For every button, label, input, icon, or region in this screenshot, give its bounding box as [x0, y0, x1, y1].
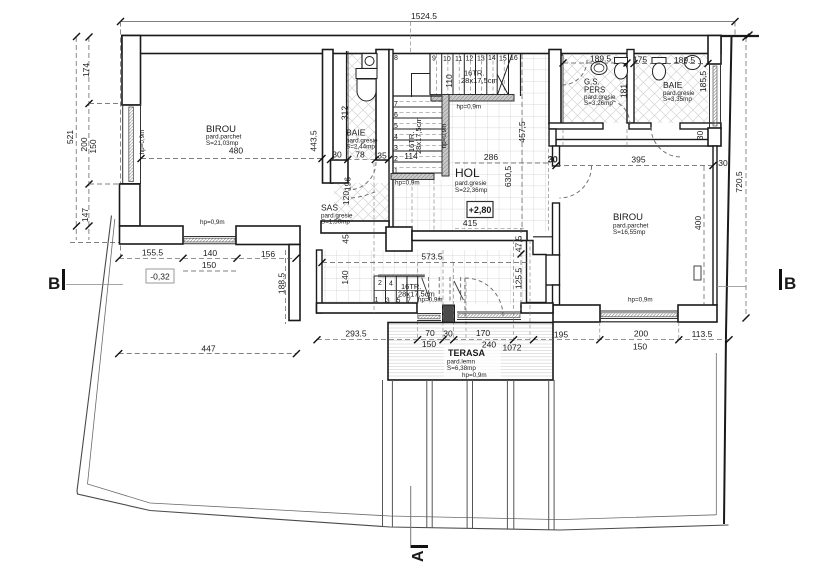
- svg-text:S=16,55mp: S=16,55mp: [613, 229, 646, 236]
- svg-text:312: 312: [340, 106, 350, 120]
- svg-text:hp=0,9m: hp=0,9m: [462, 372, 487, 379]
- svg-text:15: 15: [499, 56, 507, 63]
- staircase upper flight: [412, 54, 521, 97]
- dimension 181: [619, 84, 629, 98]
- svg-text:B: B: [784, 274, 796, 293]
- wall baie1 left lines: [347, 51, 349, 160]
- label hp left window: [139, 130, 146, 155]
- svg-text:2: 2: [378, 280, 382, 287]
- wall birou2 left segments: [540, 129, 560, 305]
- room label sas: [321, 177, 353, 226]
- dimension 447: [115, 344, 300, 358]
- svg-text:110: 110: [444, 74, 454, 88]
- svg-text:400: 400: [693, 216, 703, 230]
- wall terasa right top: [521, 303, 553, 313]
- svg-text:hp=0,9m: hp=0,9m: [418, 297, 443, 304]
- svg-text:395: 395: [631, 155, 645, 165]
- svg-text:188.5: 188.5: [277, 273, 287, 295]
- svg-text:hp=0,9m: hp=0,9m: [457, 104, 482, 111]
- svg-text:30: 30: [718, 158, 728, 168]
- door arc sas-hol: [351, 191, 377, 198]
- dimension bottom row: [314, 328, 733, 353]
- dimension 45 140 chain: [340, 234, 351, 285]
- window birou1 bottom: [183, 237, 236, 244]
- svg-text:189.5: 189.5: [590, 54, 612, 64]
- svg-text:30: 30: [332, 150, 342, 160]
- svg-text:443.5: 443.5: [309, 130, 319, 152]
- section marker B left: [48, 269, 123, 293]
- parapet hatch lower: [391, 95, 449, 180]
- wall vertical below birou1: [289, 245, 300, 321]
- fixtures gs: sink: [591, 62, 607, 75]
- svg-text:189.5: 189.5: [674, 55, 696, 65]
- svg-text:pard.gresie: pard.gresie: [455, 180, 487, 187]
- svg-text:S=6,38mp: S=6,38mp: [447, 365, 476, 372]
- wall baie1 right / shaft: [376, 50, 389, 161]
- svg-text:78: 78: [355, 150, 365, 160]
- svg-text:140: 140: [203, 248, 217, 258]
- svg-text:9: 9: [432, 56, 436, 63]
- wall birou1 bottom left segment: [120, 226, 184, 244]
- staircase lower flight: [393, 96, 442, 173]
- svg-text:B: B: [48, 274, 60, 293]
- entry steps: [374, 275, 463, 304]
- svg-text:hp=0,9m: hp=0,9m: [200, 219, 225, 226]
- wall junction block: [386, 227, 412, 251]
- svg-text:12: 12: [466, 56, 474, 63]
- svg-text:4: 4: [394, 134, 398, 141]
- svg-text:415: 415: [463, 218, 477, 228]
- svg-text:45: 45: [341, 234, 351, 244]
- svg-text:BIROU: BIROU: [613, 212, 643, 223]
- dimension 480: [138, 146, 326, 163]
- svg-text:114: 114: [404, 151, 418, 161]
- svg-text:5: 5: [397, 298, 401, 305]
- dimension 30 hol: [548, 155, 558, 165]
- svg-text:480: 480: [229, 146, 243, 156]
- room label baie1: [340, 106, 379, 151]
- stair labels: [395, 69, 498, 187]
- dimension 415: [463, 218, 477, 228]
- svg-text:195: 195: [554, 330, 568, 340]
- wall bathrooms bottom: [549, 123, 721, 129]
- svg-text:150: 150: [422, 339, 436, 349]
- pillar entry: [443, 305, 455, 323]
- svg-text:HOL: HOL: [455, 166, 480, 180]
- wall left upper: [122, 36, 141, 106]
- terasa: [388, 323, 553, 381]
- dimension 400: [693, 166, 704, 305]
- wall left lower block: [120, 184, 141, 226]
- svg-text:175: 175: [633, 55, 647, 65]
- level box +2,80: [467, 202, 493, 218]
- wall lower block right jogs: [527, 237, 553, 303]
- svg-text:457,5: 457,5: [517, 121, 527, 143]
- floor tile fields: [322, 51, 708, 304]
- svg-text:S=22,36mp: S=22,36mp: [455, 187, 488, 194]
- door arc birou2: [560, 166, 592, 198]
- svg-text:630,5: 630,5: [503, 166, 513, 188]
- fixtures baie2: wc: [652, 58, 666, 81]
- wall birou2 bottom with window: [553, 305, 717, 322]
- window lower block 1: [417, 314, 441, 321]
- svg-text:521: 521: [65, 130, 75, 144]
- svg-text:140: 140: [340, 270, 350, 284]
- site boundary top: [121, 35, 759, 37]
- svg-text:S=1,50mp: S=1,50mp: [321, 219, 350, 226]
- svg-text:174: 174: [81, 63, 91, 77]
- svg-text:13: 13: [477, 56, 485, 63]
- label hp birou1 bottom: [200, 219, 225, 226]
- svg-text:TERASA: TERASA: [448, 348, 486, 358]
- svg-text:3: 3: [394, 145, 398, 152]
- wall baie1 bottom: [331, 160, 349, 183]
- svg-text:11: 11: [455, 56, 462, 63]
- dimension 573.5: [319, 252, 528, 267]
- dimension 30 (baie2 below): [695, 131, 705, 141]
- svg-text:S=3,26mp: S=3,26mp: [584, 100, 613, 107]
- svg-text:2: 2: [394, 156, 398, 163]
- svg-text:1: 1: [394, 168, 398, 175]
- room label birou2: [613, 212, 649, 236]
- svg-text:10: 10: [443, 56, 451, 63]
- door arc gs bottom: [605, 100, 630, 125]
- svg-text:293.5: 293.5: [345, 329, 367, 339]
- svg-text:28x17,5cm: 28x17,5cm: [414, 117, 423, 154]
- svg-text:147: 147: [80, 208, 90, 222]
- dimension 286: [455, 152, 549, 163]
- wall birou1 bottom right segment: [236, 226, 300, 245]
- door arc baie1: [348, 162, 376, 190]
- svg-text:447: 447: [201, 344, 215, 354]
- svg-text:7: 7: [407, 298, 411, 305]
- svg-text:S=2,44mp: S=2,44mp: [346, 144, 375, 151]
- svg-text:6: 6: [394, 112, 398, 119]
- svg-text:BAIE: BAIE: [663, 80, 683, 90]
- svg-text:30: 30: [695, 131, 705, 141]
- svg-text:150: 150: [202, 260, 216, 270]
- wall top: [122, 36, 721, 54]
- wall right bathrooms / window: [708, 36, 721, 147]
- dimension 185,5: [698, 71, 708, 93]
- svg-text:70: 70: [425, 328, 435, 338]
- extension dashed lines: [348, 22, 679, 340]
- svg-text:3: 3: [386, 298, 390, 305]
- wall lower block left: [317, 250, 323, 313]
- dimension 395 row: [548, 154, 728, 169]
- svg-text:hp=0,9m: hp=0,9m: [139, 130, 146, 155]
- svg-text:47,5: 47,5: [514, 235, 524, 252]
- svg-text:720,5: 720,5: [734, 171, 744, 193]
- svg-text:170: 170: [476, 328, 490, 338]
- svg-text:5: 5: [394, 123, 398, 130]
- wall sas bottom: [321, 221, 389, 233]
- terrace steps below: [383, 380, 555, 530]
- door arc gs left: [562, 60, 587, 85]
- svg-text:155.5: 155.5: [142, 248, 164, 258]
- wall birou2 top: [556, 140, 713, 147]
- svg-text:200: 200: [634, 329, 648, 339]
- dimension 189.5 175 189.5: [560, 54, 712, 68]
- svg-text:125.5: 125.5: [514, 268, 524, 290]
- svg-text:SAS: SAS: [321, 203, 338, 213]
- dimension 188.5: [277, 250, 287, 324]
- svg-text:1072: 1072: [503, 343, 522, 353]
- dimension right chain 720,5: [734, 32, 753, 322]
- svg-text:120: 120: [341, 191, 351, 205]
- svg-text:113.5: 113.5: [692, 329, 713, 339]
- svg-text:156: 156: [261, 249, 275, 259]
- svg-text:8: 8: [394, 55, 398, 62]
- svg-text:150: 150: [633, 342, 647, 352]
- label hp birou2: [628, 297, 653, 304]
- window lower block 2: [457, 312, 521, 320]
- site boundary right: [724, 36, 732, 524]
- room label baie2: [663, 80, 695, 103]
- fixtures baie1: sink: [356, 54, 377, 79]
- svg-text:1524.5: 1524.5: [411, 11, 437, 21]
- wall birou2 right: [713, 146, 717, 305]
- svg-text:35: 35: [377, 151, 387, 161]
- fixtures gs: wc: [615, 58, 628, 80]
- dimension top 1524.5: [117, 11, 739, 258]
- svg-text:196: 196: [343, 177, 353, 191]
- wall stair left: [389, 50, 393, 234]
- svg-text:30: 30: [548, 154, 558, 164]
- dimension 457,5: [517, 54, 527, 230]
- radiator birou2: [694, 266, 701, 280]
- window left (hp=0,9m): [121, 105, 141, 185]
- svg-text:BAIE: BAIE: [346, 128, 366, 138]
- fixtures baie1: wc: [357, 79, 376, 101]
- svg-text:+2,80: +2,80: [469, 205, 492, 215]
- wall hol bottom: [412, 231, 527, 241]
- svg-text:14: 14: [488, 55, 496, 62]
- door arc entry: [465, 278, 503, 316]
- stair step numbers upper: [394, 55, 518, 63]
- wall hol right top (hol/gs): [549, 50, 563, 125]
- svg-text:573.5: 573.5: [421, 252, 443, 262]
- room label terasa: [447, 348, 487, 379]
- dimension 630,5: [503, 166, 513, 188]
- svg-text:16: 16: [510, 55, 518, 62]
- svg-text:1: 1: [375, 297, 379, 304]
- svg-text:30: 30: [443, 329, 453, 339]
- svg-text:hp=0,9m: hp=0,9m: [441, 124, 448, 149]
- room label gs pers: [584, 78, 616, 108]
- svg-text:28x17,5cm: 28x17,5cm: [461, 76, 498, 85]
- room label hol: [455, 166, 488, 194]
- site boundary left slanted: [77, 216, 729, 531]
- svg-text:181: 181: [619, 84, 629, 98]
- svg-text:-0,32: -0,32: [150, 272, 170, 282]
- dimension 47,5 and 125.5: [514, 228, 525, 310]
- dimension left chain 521 / 174 200 147: [65, 33, 128, 243]
- door arc baie2 bottom: [651, 127, 681, 157]
- parapet hatch upper: [431, 95, 514, 102]
- dimension 443.5: [309, 130, 319, 152]
- room label birou1: [206, 124, 242, 147]
- svg-text:150: 150: [88, 139, 98, 153]
- stair step numbers lower: [394, 101, 398, 175]
- fixtures baie2: sink: [685, 56, 701, 70]
- wall lower block bottom: [317, 303, 418, 313]
- section marker B right: [717, 269, 796, 293]
- svg-text:S=3,35mp: S=3,35mp: [663, 96, 692, 103]
- dimension 30 78 35: [327, 150, 392, 164]
- svg-text:185,5: 185,5: [698, 71, 708, 93]
- dimension row 155.5 140 156 150: [116, 248, 300, 272]
- svg-text:4: 4: [389, 281, 393, 288]
- level box -0,32: [146, 269, 174, 283]
- section marker A bottom: [410, 486, 428, 562]
- entry steps labels: [375, 280, 443, 305]
- svg-text:hp=0,9m: hp=0,9m: [628, 297, 653, 304]
- svg-text:hp=0,9m: hp=0,9m: [395, 180, 420, 187]
- svg-text:7: 7: [394, 101, 398, 108]
- wall birou1 right: [323, 50, 334, 184]
- svg-text:286: 286: [484, 152, 498, 162]
- wall gs/baie2 separation: [627, 50, 634, 124]
- svg-text:A: A: [410, 550, 427, 562]
